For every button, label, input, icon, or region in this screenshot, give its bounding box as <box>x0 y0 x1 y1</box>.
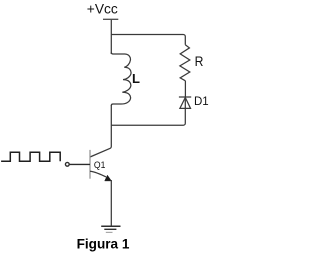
caption Figura 1 <box>77 236 130 251</box>
transistor Q1 label <box>94 160 106 171</box>
transistor Q1 base bar <box>89 150 91 179</box>
transistor Q1 emitter lead <box>90 171 106 177</box>
wire top rail <box>111 35 185 45</box>
wire emitter to ground <box>110 180 112 226</box>
svg-text:Q1: Q1 <box>94 160 106 171</box>
wire diode to bottom rail <box>111 98 185 126</box>
wire resistor to diode <box>184 81 186 97</box>
svg-text:Figura 1: Figura 1 <box>77 236 130 251</box>
ground line 1 <box>101 225 120 227</box>
node +Vcc label <box>87 2 118 17</box>
ground line 2 <box>104 228 116 230</box>
svg-text:+Vcc: +Vcc <box>87 2 118 17</box>
diode D1 triangle <box>180 98 191 109</box>
transistor Q1 emitter arrowhead <box>105 175 112 181</box>
wire supply vertical <box>110 20 112 54</box>
svg-text:L: L <box>132 71 140 86</box>
resistor R label <box>195 54 204 69</box>
resistor R <box>180 45 190 81</box>
inductor L label <box>132 71 140 86</box>
input square wave <box>1 152 60 161</box>
ground line 3 <box>106 231 113 233</box>
input terminal circle <box>65 162 69 166</box>
power terminal bar +Vcc <box>103 18 118 20</box>
wire input to base <box>70 163 91 165</box>
inductor L <box>111 52 131 105</box>
wire inductor to collector riser <box>90 105 111 157</box>
diode D1 label <box>194 94 209 108</box>
diode D1 cathode bar <box>179 96 191 98</box>
svg-text:R: R <box>195 54 204 69</box>
svg-text:D1: D1 <box>194 94 209 108</box>
